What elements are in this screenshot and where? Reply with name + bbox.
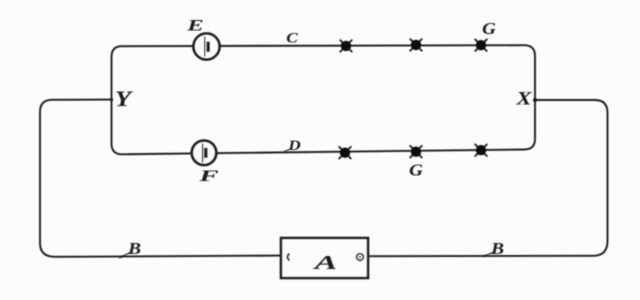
label F [198,167,219,185]
label D [287,138,301,154]
node X junction [533,98,537,102]
wire: outer loop right from A up to X [368,100,608,256]
flourish of left B [119,253,130,259]
svg-text:G: G [482,19,496,38]
svg-text:E: E [186,16,204,34]
label E [186,16,204,34]
label A [312,252,337,274]
label B right [490,239,504,258]
lamp bottom 3 [475,144,488,157]
svg-text:D: D [287,138,301,154]
terminal left inside A [288,254,290,261]
lamp bottom 2 [410,145,423,158]
inner loop rounded rectangle (wires C and D between Y and X) [112,45,536,154]
svg-text:B: B [490,239,504,258]
flourish of D [284,149,292,152]
svg-text:G: G [409,161,423,180]
lamp top 3 [475,39,488,52]
lamp bottom 1 [339,146,352,159]
svg-text:F: F [198,167,219,185]
flourish of right B [483,253,493,257]
label G bottom [409,161,423,180]
label C [286,30,298,46]
terminal right inside A [357,254,364,261]
cell plates inside E [204,37,206,57]
node Y junction [110,98,113,101]
lamp top 2 [410,39,423,52]
svg-text:X: X [515,87,532,109]
label G top [482,19,496,38]
box A (rheostat/regulator) [281,238,368,278]
label Y [115,87,133,111]
svg-text:C: C [286,30,298,46]
generator F (circle) [192,141,216,165]
svg-text:B: B [127,239,141,258]
svg-text:Y: Y [115,87,133,111]
wire: outer loop left from Y down to A [40,100,281,257]
label B left [127,239,141,258]
svg-text:A: A [312,252,337,274]
cell plates inside F [202,144,204,163]
generator E (circle) [194,34,220,60]
lamp top 1 [340,40,353,53]
label X [515,87,532,109]
